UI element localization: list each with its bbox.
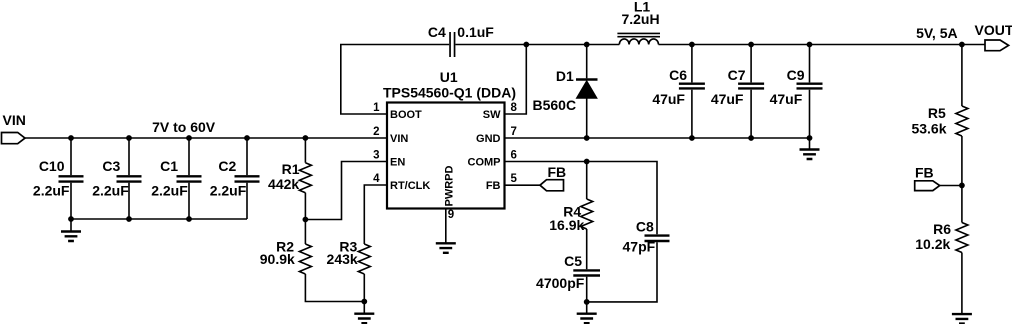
node COMP junction <box>584 159 590 165</box>
svg-text:243k: 243k <box>327 251 358 267</box>
ground below R2/R3 <box>354 302 374 324</box>
svg-text:SW: SW <box>483 109 501 121</box>
node FB divider junction <box>959 183 965 189</box>
capacitor C1 <box>151 138 201 219</box>
pin 8 SW <box>483 102 518 121</box>
pin 2 VIN <box>373 126 408 145</box>
svg-text:3: 3 <box>373 149 379 161</box>
svg-text:442k: 442k <box>268 176 299 192</box>
junction dots on GND rail <box>584 135 813 141</box>
resistor R4 <box>549 162 592 270</box>
resistor R3 <box>327 185 387 302</box>
svg-text:8: 8 <box>511 102 518 114</box>
terminal FB right <box>915 165 962 191</box>
wire FB pin 5 stub <box>505 184 541 186</box>
svg-text:4: 4 <box>373 173 380 185</box>
terminal FB at pin 5 <box>540 164 566 191</box>
capacitor C2 <box>210 138 260 219</box>
op-amp U1 TPS54560-Q1 box <box>383 69 516 209</box>
svg-text:47uF: 47uF <box>711 91 744 107</box>
svg-text:R6: R6 <box>933 221 951 237</box>
capacitor C9 <box>770 45 823 139</box>
svg-text:C9: C9 <box>787 67 805 83</box>
pin 6 COMP <box>468 149 517 168</box>
svg-text:R1: R1 <box>282 161 300 177</box>
junction dots on input cap bottom rail <box>68 216 192 222</box>
capacitor C7 <box>711 45 764 139</box>
svg-text:47uF: 47uF <box>652 91 685 107</box>
inductor L1 <box>617 0 660 45</box>
ground below C5 <box>577 302 597 323</box>
node R1/R2 junction <box>303 217 309 223</box>
capacitor C5 <box>536 253 600 302</box>
svg-text:FB: FB <box>548 164 567 180</box>
pin 1 BOOT <box>373 102 422 121</box>
wire COMP from pin 6 <box>505 161 587 163</box>
svg-text:U1: U1 <box>440 69 458 85</box>
svg-text:C6: C6 <box>669 67 687 83</box>
svg-text:EN: EN <box>390 157 405 169</box>
svg-text:53.6k: 53.6k <box>911 121 946 137</box>
svg-text:FB: FB <box>486 180 501 192</box>
node D1 top junction <box>584 42 590 48</box>
svg-text:COMP: COMP <box>468 157 501 169</box>
svg-text:C8: C8 <box>636 219 654 235</box>
svg-text:PWRPD: PWRPD <box>444 166 456 207</box>
svg-text:4700pF: 4700pF <box>536 275 585 291</box>
svg-text:C5: C5 <box>564 253 582 269</box>
capacitor C10 <box>33 138 84 219</box>
svg-text:FB: FB <box>915 165 934 181</box>
wire SW node rail <box>455 44 619 46</box>
pin 3 EN <box>373 149 405 168</box>
wire EN connection <box>305 162 387 220</box>
svg-text:47uF: 47uF <box>770 91 803 107</box>
svg-text:9: 9 <box>448 209 454 221</box>
diode D1 B560C <box>533 45 598 139</box>
svg-text:2.2uF: 2.2uF <box>210 183 247 199</box>
svg-text:C4: C4 <box>428 24 446 40</box>
svg-text:0.1uF: 0.1uF <box>457 24 494 40</box>
svg-text:90.9k: 90.9k <box>260 251 295 267</box>
svg-text:TPS54560-Q1 (DDA): TPS54560-Q1 (DDA) <box>383 84 516 100</box>
svg-text:1: 1 <box>373 102 380 114</box>
terminal VOUT <box>975 22 1012 51</box>
svg-text:2.2uF: 2.2uF <box>33 183 70 199</box>
wire input caps bottom rail <box>71 218 247 220</box>
wire VIN rail <box>25 137 387 139</box>
resistor R2 <box>260 220 365 302</box>
node C5 bottom junction <box>584 299 590 305</box>
svg-text:7: 7 <box>511 126 517 138</box>
pin 9 PWRPD <box>444 166 456 244</box>
svg-text:GND: GND <box>476 133 501 145</box>
svg-text:2.2uF: 2.2uF <box>92 183 129 199</box>
junction dots on VIN rail <box>68 135 308 141</box>
svg-text:B560C: B560C <box>533 97 577 113</box>
svg-text:16.9k: 16.9k <box>549 217 584 233</box>
svg-text:47pF: 47pF <box>623 239 656 255</box>
svg-text:10.2k: 10.2k <box>915 236 950 252</box>
pin 7 GND <box>476 126 517 145</box>
svg-text:5: 5 <box>511 173 518 185</box>
svg-text:C1: C1 <box>160 158 178 174</box>
svg-text:6: 6 <box>511 149 517 161</box>
svg-text:C2: C2 <box>218 158 236 174</box>
resistor R1 <box>268 138 311 220</box>
resistor R5 <box>911 45 967 186</box>
svg-text:C3: C3 <box>102 158 120 174</box>
ground below pin 9 <box>436 243 456 253</box>
svg-text:VOUT: VOUT <box>975 22 1012 38</box>
svg-text:C7: C7 <box>728 67 746 83</box>
capacitor C8 branch <box>587 162 670 302</box>
svg-text:BOOT: BOOT <box>390 109 422 121</box>
junction dots on SW/VOUT rail <box>689 42 965 48</box>
terminal VIN <box>2 112 26 144</box>
ground at GND rail end <box>800 138 820 159</box>
capacitor C3 <box>92 138 141 219</box>
ground below R6 <box>952 314 972 324</box>
capacitor C6 <box>652 45 705 139</box>
capacitor C4 <box>428 24 494 57</box>
svg-text:VIN: VIN <box>3 112 26 128</box>
svg-text:7V to 60V: 7V to 60V <box>152 119 216 135</box>
ground below C10 <box>61 219 81 241</box>
svg-text:5V, 5A: 5V, 5A <box>916 25 958 41</box>
svg-text:C10: C10 <box>39 158 65 174</box>
resistor R6 <box>915 185 968 314</box>
pin 4 RT/CLK <box>373 173 430 192</box>
pin 5 FB <box>486 173 518 192</box>
svg-text:VIN: VIN <box>390 133 408 145</box>
wire BOOT to C4 <box>341 45 449 115</box>
svg-text:R5: R5 <box>928 105 946 121</box>
wire GND rail from pin 7 <box>505 137 810 139</box>
wire pin8 SW to rail <box>505 45 527 115</box>
svg-text:2: 2 <box>373 126 379 138</box>
svg-text:RT/CLK: RT/CLK <box>390 180 430 192</box>
svg-text:7.2uH: 7.2uH <box>621 11 659 27</box>
svg-text:2.2uF: 2.2uF <box>151 183 188 199</box>
node SW junction <box>523 42 529 48</box>
node R2/R3 ground junction <box>361 299 367 305</box>
svg-text:D1: D1 <box>556 68 574 84</box>
wire VOUT rail <box>659 44 986 46</box>
